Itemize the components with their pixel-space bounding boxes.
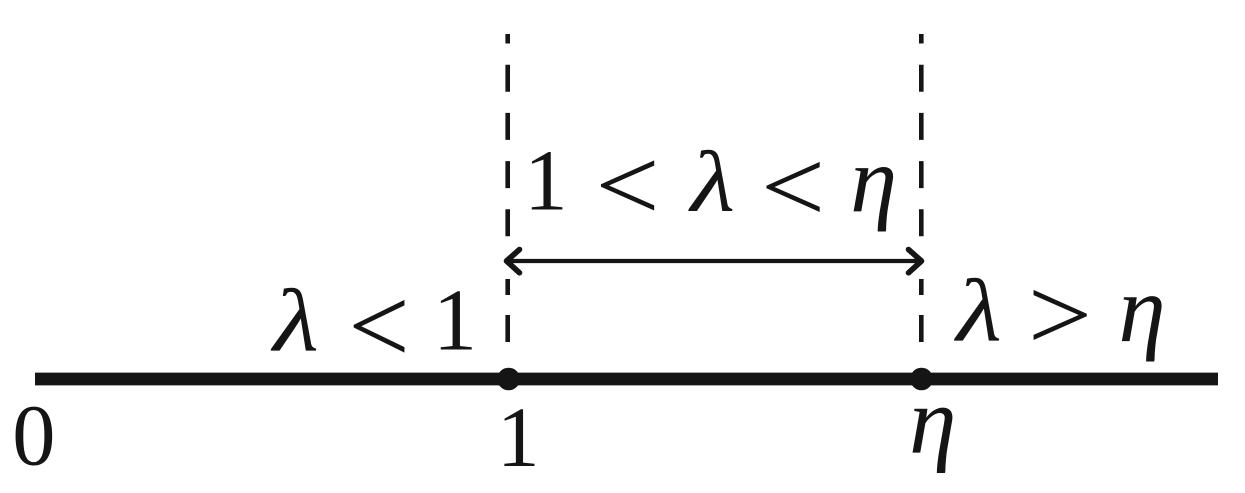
point dot at 1 [497, 368, 520, 391]
svg-text:1: 1 [497, 391, 540, 485]
label 0 at origin [12, 388, 55, 484]
left arrowhead [507, 250, 520, 273]
svg-text:<: < [761, 129, 826, 244]
double-headed arrow shaft between 1 and eta [509, 259, 920, 263]
number line axis [35, 373, 1218, 386]
annotation "lambda > eta" right region [953, 262, 1002, 360]
dashed vertical line at lambda=1 [505, 34, 510, 247]
svg-text:η: η [850, 129, 897, 233]
svg-text:η: η [1119, 256, 1166, 362]
svg-text:<: < [348, 265, 410, 386]
svg-text:0: 0 [12, 388, 55, 484]
annotation "1 < lambda < eta" between dashed lines [524, 131, 568, 228]
annotation "lambda < 1" left region [270, 272, 319, 371]
svg-text:<: < [595, 128, 660, 243]
svg-text:η: η [909, 368, 956, 474]
point dot at eta [910, 368, 933, 391]
svg-text:1: 1 [433, 272, 477, 369]
svg-text:>: > [1028, 257, 1093, 372]
right arrowhead [909, 250, 922, 273]
dashed vertical line at lambda=eta [919, 34, 924, 247]
label 1 below axis [497, 391, 540, 485]
dashed line at lambda=1, lower segment [505, 279, 510, 352]
label eta below axis [909, 368, 956, 474]
svg-text:λ: λ [953, 262, 1002, 360]
svg-text:λ: λ [270, 272, 319, 371]
svg-text:λ: λ [688, 135, 736, 230]
dashed line at lambda=eta, lower segment [919, 279, 924, 352]
svg-text:1: 1 [524, 131, 568, 228]
